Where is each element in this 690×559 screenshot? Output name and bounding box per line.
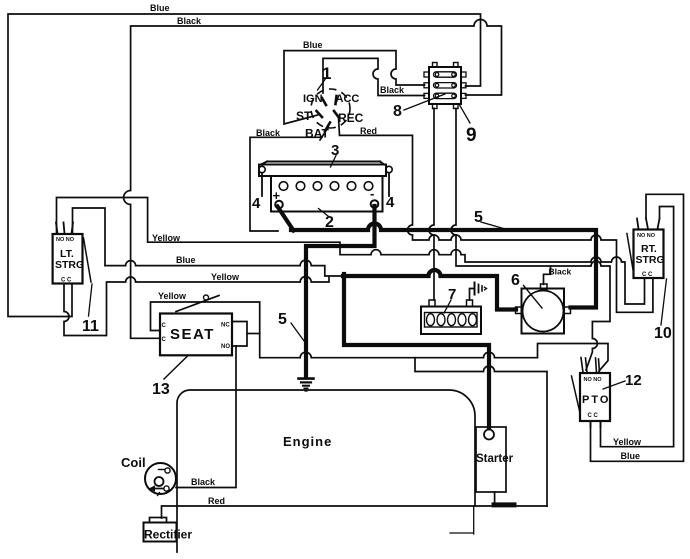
svg-text:C: C: [162, 337, 167, 343]
ignition terminal tick IGN: [322, 98, 326, 105]
wire yellow RT.STRG pin to right edge down to PTO: [601, 207, 674, 447]
connector top tab right: [454, 63, 459, 68]
svg-text:Blue: Blue: [621, 451, 641, 461]
connector bottom tab left: [433, 104, 438, 109]
svg-text:ACC: ACC: [336, 93, 360, 105]
svg-text:NO NO: NO NO: [637, 233, 656, 239]
starter M1 box: [476, 427, 506, 492]
svg-text:+: +: [273, 188, 281, 203]
wire connector tab to fuse block terminal: [429, 109, 434, 301]
pointer for 12: [603, 381, 625, 389]
wire black IGN terminal to connector left-bottom pin: [323, 58, 425, 95]
svg-text:Blue: Blue: [176, 255, 196, 265]
wire yellow2 return to LT.STRG C1: [64, 277, 329, 336]
svg-text:10: 10: [654, 325, 672, 342]
svg-text:Engine: Engine: [283, 434, 332, 449]
pointer for 5 upper: [481, 222, 505, 229]
ground symbol main: [299, 377, 314, 380]
solenoid left terminal: [516, 307, 523, 314]
thick cable battery positive diagonal: [278, 207, 294, 231]
wire chassis run to engine bottom: [415, 358, 547, 506]
thick connector dash on bottom line: [494, 502, 514, 507]
thick cable branch to solenoid left terminal: [343, 270, 516, 310]
solenoid top terminal: [541, 284, 548, 290]
svg-text:C C: C C: [642, 272, 653, 278]
engine block outline: [177, 390, 475, 552]
wire LT.STRG pin3 riser: [73, 208, 106, 266]
wire black top: connector right-bottom pin across top, down left side x=131 to seat switch: [124, 20, 502, 339]
battery B1 body: [271, 176, 383, 212]
SEAT right bracket: [232, 322, 247, 347]
svg-text:NC: NC: [221, 323, 230, 329]
switch S2 LT.STRG box: [53, 234, 83, 284]
RT.STRG lever: [627, 234, 634, 273]
svg-text:Yellow: Yellow: [152, 233, 181, 243]
wire red rectifier output along engine bottom: [162, 506, 548, 518]
SEAT lever roller: [204, 295, 209, 300]
rectifier lid: [150, 518, 167, 523]
connector slot 2: [434, 83, 457, 88]
pointer for 3: [331, 156, 337, 168]
battery positive terminal: [275, 201, 283, 209]
pointer for 11: [89, 284, 93, 316]
connector left pin row: [424, 72, 429, 77]
fuse block F1 outer: [421, 307, 481, 335]
fuses: [427, 314, 435, 326]
wire blue RT.STRG pin to right edge down to PTO: [591, 194, 684, 461]
pointer for 13: [164, 357, 187, 380]
wire blue ST terminal loop to connector left-middle pin: [284, 51, 425, 124]
PTO lever: [572, 376, 581, 413]
LT.STRG top pins: [56, 223, 73, 234]
pointer for 2: [319, 209, 329, 217]
svg-text:Black: Black: [191, 477, 216, 487]
wire black battery compartment: BAT to left side down: [250, 137, 322, 231]
thick cable battery negative to chassis ground: [306, 206, 375, 377]
svg-text:Rectifier: Rectifier: [144, 528, 192, 542]
svg-text:Black: Black: [177, 16, 202, 26]
SEAT lever: [176, 296, 219, 312]
svg-text:Coil: Coil: [121, 455, 146, 470]
wire stub below engine bottom: [450, 506, 474, 534]
svg-text:4: 4: [386, 194, 395, 211]
wire black coil to seat switch NC: [176, 346, 236, 488]
wire solenoid top terminal stub: [544, 266, 551, 284]
svg-text:Blue: Blue: [303, 40, 323, 50]
svg-text:13: 13: [152, 381, 170, 398]
svg-text:NO NO: NO NO: [56, 237, 75, 243]
svg-text:Starter: Starter: [476, 453, 514, 465]
svg-text:PTO: PTO: [582, 394, 610, 406]
solenoid coil circle: [523, 291, 564, 332]
fuse block left terminal: [429, 300, 435, 307]
pointer for 6: [524, 286, 543, 309]
svg-text:Red: Red: [360, 126, 377, 136]
battery negative terminal: [371, 200, 379, 208]
PTO bottom pins: [591, 421, 601, 427]
ignition terminal tick BAT: [325, 123, 330, 132]
solenoid K1 square: [522, 289, 565, 334]
pointer for 8: [404, 94, 445, 110]
pointer for 7: [444, 300, 451, 313]
wire blue top-left loop: ignition connector to left edge down to LT.STRG C2: [8, 14, 481, 317]
connector slot 1: [434, 72, 457, 77]
connector top tab left: [433, 63, 438, 68]
switch S4 SEAT box: [160, 314, 232, 356]
svg-text:C C: C C: [588, 413, 599, 419]
pointer for 10: [661, 279, 667, 325]
connector bottom tab right: [454, 104, 459, 109]
wire starter bottom stub: [494, 492, 496, 506]
connector slot 3: [434, 93, 457, 98]
wire yellow seat loop and engine area run to PTO switch: [151, 302, 609, 371]
rectifier D1 box: [144, 523, 177, 542]
coil small terminal circle: [165, 468, 170, 473]
svg-text:7: 7: [448, 286, 456, 303]
wire connector tab down then to solenoid top and PTO switch: [451, 109, 610, 371]
switch S5 PTO box: [580, 373, 610, 421]
svg-text:NO: NO: [221, 344, 230, 350]
RT.STRG top pins: [637, 219, 660, 230]
svg-text:STRG: STRG: [55, 259, 84, 271]
svg-text:1: 1: [322, 64, 331, 83]
svg-text:ST: ST: [296, 109, 312, 123]
ground symbol small: [474, 283, 476, 295]
pointer for 9: [459, 104, 470, 123]
battery cover tray: [259, 165, 386, 177]
ignition terminal tick ACC: [336, 96, 337, 104]
battery cover top line: [261, 162, 384, 165]
battery hold-down bolt left: [259, 166, 265, 172]
svg-text:Yellow: Yellow: [211, 272, 240, 282]
svg-text:Blue: Blue: [150, 3, 170, 13]
starter terminal circle: [484, 430, 494, 440]
fuse block inner: [425, 313, 478, 328]
svg-text:SEAT: SEAT: [170, 326, 215, 343]
PTO top pins: [581, 358, 600, 373]
svg-text:BAT: BAT: [305, 127, 329, 141]
svg-text:5: 5: [474, 209, 483, 226]
svg-text:-: -: [370, 186, 374, 201]
svg-text:C: C: [162, 323, 167, 329]
wire yellow LT.STRG pin1 interlock net to RT.STRG C1: [57, 198, 645, 305]
fuse block right terminal: [467, 300, 473, 307]
svg-text:9: 9: [466, 125, 477, 146]
pointer for 5 lower: [291, 323, 306, 343]
svg-text:Black: Black: [549, 267, 572, 277]
svg-text:Yellow: Yellow: [613, 437, 642, 447]
svg-text:11: 11: [82, 318, 99, 335]
svg-text:Black: Black: [380, 85, 405, 95]
svg-text:12: 12: [625, 372, 642, 389]
connector right pin row: [461, 72, 466, 77]
svg-text:IGN: IGN: [303, 93, 323, 105]
wire black BAT terminal diagonal: [320, 128, 328, 141]
coil T1 circle: [145, 463, 176, 494]
wire seat bracket stub: [247, 333, 260, 335]
coil arrow terminal: [154, 488, 163, 490]
ignition terminal tick REC: [334, 111, 339, 117]
thick cable battery positive to starter solenoid right terminal: [291, 224, 596, 308]
ignition switch U1 dashed circle: [311, 89, 350, 128]
LT.STRG lever: [84, 238, 92, 282]
svg-text:5: 5: [278, 311, 287, 328]
wire red REC terminal across and down right side of battery, then red net to RT.STRG C2: [339, 118, 653, 313]
switch S3 RT.STRG box: [634, 230, 664, 279]
thick cable branch down to starter terminal: [344, 274, 489, 428]
wire fuse block to chassis ground: [470, 289, 474, 301]
pointer for 1: [318, 76, 328, 90]
svg-text:C C: C C: [61, 278, 72, 284]
coil center circle: [155, 477, 164, 486]
battery hold-down bolt right: [386, 166, 392, 172]
svg-text:8: 8: [393, 103, 402, 120]
wire blue net to thick starter cable junction: [105, 260, 343, 276]
battery cell caps: [279, 182, 288, 191]
solenoid right terminal: [564, 307, 571, 314]
svg-text:REC: REC: [338, 111, 364, 125]
svg-text:NO NO: NO NO: [584, 377, 603, 383]
svg-text:6: 6: [511, 272, 520, 289]
connector J1 body: [429, 67, 461, 104]
ignition terminal tick ST: [317, 111, 323, 117]
svg-text:4: 4: [252, 195, 261, 212]
svg-text:Yellow: Yellow: [158, 291, 187, 301]
svg-text:Black: Black: [256, 128, 281, 138]
svg-text:Red: Red: [208, 496, 225, 506]
svg-text:STRG: STRG: [636, 254, 665, 266]
